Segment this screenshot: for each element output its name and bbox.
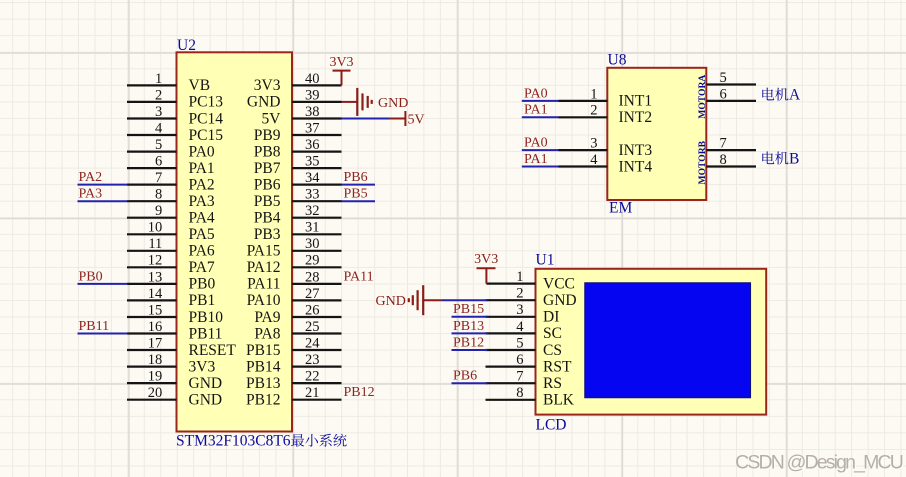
svg-text:GND: GND <box>376 294 406 309</box>
svg-text:22: 22 <box>305 369 320 385</box>
svg-text:PA10: PA10 <box>247 292 281 309</box>
svg-text:U8: U8 <box>608 52 627 69</box>
svg-text:PA8: PA8 <box>254 325 280 342</box>
svg-text:PB6: PB6 <box>344 170 368 185</box>
svg-text:INT2: INT2 <box>619 109 653 126</box>
svg-text:PA7: PA7 <box>189 259 215 276</box>
svg-text:1: 1 <box>516 269 523 285</box>
svg-text:PB5: PB5 <box>254 193 281 210</box>
svg-text:RS: RS <box>543 375 562 392</box>
svg-text:SC: SC <box>543 325 562 342</box>
svg-text:37: 37 <box>305 120 320 136</box>
svg-text:12: 12 <box>148 253 163 269</box>
svg-text:PA0: PA0 <box>524 86 548 101</box>
svg-text:PB11: PB11 <box>79 319 110 334</box>
svg-text:PB11: PB11 <box>189 325 223 342</box>
svg-text:5: 5 <box>720 70 727 86</box>
svg-text:21: 21 <box>305 385 320 401</box>
svg-text:4: 4 <box>155 120 163 136</box>
svg-text:PB9: PB9 <box>254 127 281 144</box>
svg-text:5V: 5V <box>408 113 425 128</box>
svg-text:PA12: PA12 <box>247 259 281 276</box>
svg-text:7: 7 <box>720 136 727 152</box>
svg-text:6: 6 <box>155 154 162 170</box>
svg-text:PB10: PB10 <box>189 309 224 326</box>
svg-text:PB8: PB8 <box>254 143 281 160</box>
svg-text:PB6: PB6 <box>254 176 281 193</box>
svg-text:PC15: PC15 <box>189 127 224 144</box>
svg-text:VB: VB <box>189 77 211 94</box>
svg-text:3V3: 3V3 <box>254 77 281 94</box>
svg-text:EM: EM <box>609 200 632 217</box>
svg-text:PB15: PB15 <box>246 342 281 359</box>
svg-text:3: 3 <box>590 136 597 152</box>
svg-text:16: 16 <box>148 319 163 335</box>
svg-text:PA0: PA0 <box>189 143 215 160</box>
svg-text:PB14: PB14 <box>246 358 281 375</box>
svg-text:23: 23 <box>305 352 320 368</box>
svg-text:PB15: PB15 <box>453 302 484 317</box>
svg-text:PB5: PB5 <box>344 187 368 202</box>
svg-text:PA1: PA1 <box>524 152 548 167</box>
svg-text:4: 4 <box>590 152 598 168</box>
svg-text:GND: GND <box>247 94 281 111</box>
svg-text:32: 32 <box>305 203 320 219</box>
svg-text:38: 38 <box>305 104 320 120</box>
svg-text:PA4: PA4 <box>189 210 215 227</box>
svg-text:B: B <box>789 150 799 167</box>
svg-text:6: 6 <box>720 86 727 102</box>
svg-text:GND: GND <box>543 292 577 309</box>
svg-text:U1: U1 <box>536 251 555 268</box>
svg-text:35: 35 <box>305 154 320 170</box>
svg-text:PC13: PC13 <box>189 94 224 111</box>
svg-text:3V3: 3V3 <box>329 55 353 70</box>
svg-text:20: 20 <box>148 385 163 401</box>
svg-text:PB13: PB13 <box>246 375 281 392</box>
svg-text:36: 36 <box>305 137 320 153</box>
svg-text:MOTORA: MOTORA <box>697 75 708 119</box>
svg-text:14: 14 <box>148 286 163 302</box>
svg-text:8: 8 <box>720 152 727 168</box>
svg-text:RESET: RESET <box>189 342 237 359</box>
svg-text:2: 2 <box>590 103 597 119</box>
svg-text:17: 17 <box>148 335 163 351</box>
svg-text:MOTORB: MOTORB <box>697 140 708 184</box>
svg-text:U2: U2 <box>177 37 196 54</box>
svg-text:26: 26 <box>305 302 320 318</box>
svg-text:PB12: PB12 <box>453 335 484 350</box>
svg-text:PB1: PB1 <box>189 292 216 309</box>
svg-text:PA11: PA11 <box>247 276 280 293</box>
svg-text:GND: GND <box>189 392 223 409</box>
svg-text:10: 10 <box>148 220 163 236</box>
svg-text:39: 39 <box>305 87 320 103</box>
svg-text:PB12: PB12 <box>246 392 280 409</box>
svg-text:PB3: PB3 <box>254 226 281 243</box>
svg-text:30: 30 <box>305 236 320 252</box>
svg-text:8: 8 <box>155 187 162 203</box>
svg-text:INT3: INT3 <box>619 142 653 159</box>
svg-text:LCD: LCD <box>536 416 567 433</box>
svg-text:29: 29 <box>305 253 320 269</box>
svg-text:PB0: PB0 <box>189 276 216 293</box>
svg-text:8: 8 <box>516 385 523 401</box>
svg-text:11: 11 <box>148 236 162 252</box>
svg-text:DI: DI <box>543 309 559 326</box>
svg-text:7: 7 <box>155 170 162 186</box>
svg-text:34: 34 <box>305 170 320 186</box>
svg-text:PB0: PB0 <box>79 269 103 284</box>
svg-text:PA6: PA6 <box>189 243 215 260</box>
svg-text:6: 6 <box>516 352 523 368</box>
svg-text:RST: RST <box>543 358 572 375</box>
svg-text:25: 25 <box>305 319 320 335</box>
svg-text:40: 40 <box>305 71 320 87</box>
svg-text:3: 3 <box>516 302 523 318</box>
svg-text:PA2: PA2 <box>79 170 103 185</box>
svg-text:PB12: PB12 <box>344 385 375 400</box>
svg-text:1: 1 <box>590 86 597 102</box>
svg-text:PA9: PA9 <box>254 309 280 326</box>
svg-text:13: 13 <box>148 269 163 285</box>
svg-text:PA15: PA15 <box>247 243 281 260</box>
svg-text:31: 31 <box>305 220 320 236</box>
svg-text:PA5: PA5 <box>189 226 215 243</box>
svg-text:PB4: PB4 <box>254 210 281 227</box>
svg-text:INT4: INT4 <box>619 158 653 175</box>
svg-text:PA1: PA1 <box>524 103 548 118</box>
svg-text:PA2: PA2 <box>189 176 215 193</box>
svg-text:27: 27 <box>305 286 320 302</box>
svg-text:INT1: INT1 <box>619 93 653 110</box>
svg-text:2: 2 <box>155 87 162 103</box>
svg-text:5: 5 <box>155 137 162 153</box>
svg-text:PA1: PA1 <box>189 160 215 177</box>
svg-text:PA0: PA0 <box>524 136 548 151</box>
svg-text:GND: GND <box>378 96 408 111</box>
svg-text:1: 1 <box>155 71 162 87</box>
svg-text:A: A <box>789 87 801 104</box>
svg-text:19: 19 <box>148 369 163 385</box>
svg-text:BLK: BLK <box>543 392 575 409</box>
svg-text:3V3: 3V3 <box>189 358 216 375</box>
svg-text:CS: CS <box>543 342 562 359</box>
svg-text:PB13: PB13 <box>453 319 484 334</box>
svg-text:PC14: PC14 <box>189 110 224 127</box>
svg-text:GND: GND <box>189 375 223 392</box>
svg-text:18: 18 <box>148 352 163 368</box>
svg-text:PA11: PA11 <box>344 269 374 284</box>
svg-text:5V: 5V <box>262 110 282 127</box>
svg-text:24: 24 <box>305 335 320 351</box>
svg-text:4: 4 <box>516 319 524 335</box>
svg-text:5: 5 <box>516 335 523 351</box>
svg-text:33: 33 <box>305 187 320 203</box>
svg-text:15: 15 <box>148 302 163 318</box>
svg-text:PB7: PB7 <box>254 160 281 177</box>
svg-text:STM32F103C8T6: STM32F103C8T6 <box>176 433 291 450</box>
svg-text:7: 7 <box>516 369 523 385</box>
svg-text:PA3: PA3 <box>189 193 215 210</box>
svg-text:PA3: PA3 <box>79 187 103 202</box>
svg-text:3V3: 3V3 <box>474 252 498 267</box>
svg-text:28: 28 <box>305 269 320 285</box>
svg-text:2: 2 <box>516 286 523 302</box>
svg-text:9: 9 <box>155 203 162 219</box>
svg-text:CSDN @Design_MCU: CSDN @Design_MCU <box>735 452 903 474</box>
svg-text:PB6: PB6 <box>453 369 477 384</box>
svg-text:VCC: VCC <box>543 275 575 292</box>
svg-text:3: 3 <box>155 104 162 120</box>
